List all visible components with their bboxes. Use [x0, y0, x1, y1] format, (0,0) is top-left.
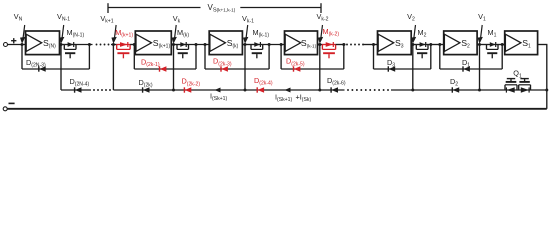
arrow and label V_k [175, 25, 177, 39]
vertical V_2 to row2 [412, 46, 414, 91]
node before S3 [372, 43, 375, 46]
arrow and label V_k-2 [321, 25, 323, 39]
negative terminal [3, 107, 7, 111]
transistor M1 [487, 44, 499, 46]
bracket V_S(k+1:k-1) [108, 7, 201, 9]
vertical V_1 to row2 [479, 46, 481, 91]
vertical V_k-1 to row2 [244, 46, 246, 91]
wire M2 to S2 [428, 44, 444, 46]
diode D(2N-3) [38, 66, 40, 71]
vertical V_k+1 to row2 [112, 46, 114, 91]
diode D(2k-5) red [293, 66, 295, 71]
node V_2 [411, 43, 414, 46]
diode D(2k) [142, 87, 144, 92]
row2 main segment [113, 89, 344, 91]
driver box S(k-1) [285, 31, 318, 55]
node before S(k) [204, 43, 207, 46]
positive input terminal [4, 43, 8, 47]
wire continuation dots 2 [346, 44, 348, 46]
arrow and label V_N [23, 25, 25, 39]
wire S1 to right rail [538, 44, 548, 46]
transistor M(N-1) [64, 44, 76, 46]
node before S(k+1) [133, 43, 136, 46]
driver box S3 [378, 31, 412, 55]
wire + terminal to S(N) [8, 44, 26, 46]
transistor M(k-2) red [322, 44, 335, 46]
node after M(k-1) [268, 43, 271, 46]
wire M(k-2) to node [336, 44, 346, 46]
wire continuation dots [96, 44, 98, 46]
node after M(k) [195, 43, 198, 46]
wire M(N-1) to node [76, 44, 93, 46]
node V_k-1 [244, 43, 247, 46]
wire S2 to M1 [477, 44, 486, 46]
arrow and label V_k+1 [114, 25, 116, 39]
transistor M2 [416, 44, 428, 46]
node after M2 [429, 43, 432, 46]
node V_k+1 [112, 43, 115, 46]
node after M(k-2) [342, 43, 345, 46]
arrow and label V_k-1 [246, 25, 248, 39]
driver box S(k+1) [135, 31, 171, 55]
wire into S3 [363, 44, 378, 46]
wire into M(k+1) [111, 44, 117, 46]
node V_1 [478, 43, 481, 46]
diode D(2k-1) red [159, 66, 161, 71]
row1 segment stage k [204, 46, 206, 70]
current arrow I(Sk+1) [215, 88, 221, 93]
wire S(k) to M(k-1) [242, 44, 251, 46]
driver box S(N) [26, 31, 60, 55]
diode D2 [451, 87, 453, 92]
node V_N-1 [60, 43, 63, 46]
wire S(N) to M(N-1) [60, 44, 65, 46]
switch Q1 left mosfet [504, 85, 506, 90]
node before S(k-1) [280, 43, 283, 46]
right rail down [546, 45, 548, 109]
row2 dots 1 [93, 89, 95, 91]
node V_k-2 [318, 43, 321, 46]
bottom rail [7, 108, 547, 110]
row1 segment stage 3 [373, 46, 375, 70]
wire M1 to S1 [498, 44, 505, 46]
row2 segment stage N [61, 89, 91, 91]
node before S2 [438, 43, 441, 46]
diode D(2N-4) [74, 87, 76, 92]
node V_k [172, 43, 175, 46]
driver box S(k) [209, 31, 242, 55]
wire S(k-1) to M(k-2) [318, 44, 323, 46]
driver box S2 [444, 31, 477, 55]
diode D3 [387, 66, 389, 71]
diode D(2k-2) red [183, 87, 185, 92]
row1 segment stage k+1 [133, 46, 135, 70]
row2 dots 2 [347, 89, 349, 91]
wire M(k+1) to S(k+1) [130, 44, 135, 46]
driver box S1 [505, 31, 538, 55]
node V_N [21, 43, 24, 46]
diode D(2k-3) red [220, 66, 222, 71]
row1 segment stage N [21, 46, 23, 70]
diode D1 [462, 66, 464, 71]
switch Q1 right mosfet [518, 85, 520, 90]
transistor M(k-1) [251, 44, 263, 46]
node after M1 [501, 43, 504, 46]
transistor M(k) [177, 44, 189, 46]
diode D(2k-4) red [256, 87, 258, 92]
row1 segment stage 2 [439, 46, 441, 70]
node after M(N-1) [88, 43, 91, 46]
row1 segment stage k-1 [280, 46, 282, 70]
arrow and label V_N-1 [62, 25, 64, 39]
row2 right segment [391, 89, 547, 91]
transistor M(k+1) red [117, 44, 130, 46]
wire M(k) to S(k) [189, 44, 210, 46]
current arrow I(Sk+1)+I(Sk) [285, 88, 291, 93]
arrow and label V_1 [481, 25, 483, 39]
vertical V_N-1 to row2 [60, 46, 62, 91]
wire M(k-1) to S(k-1) [263, 44, 285, 46]
vertical V_k-2 to row2 [319, 46, 321, 91]
row2 end node [545, 89, 548, 92]
wire S3 to M2 [411, 44, 416, 46]
wire S(k+1) to M(k) [171, 44, 177, 46]
diode D(2k-6) [330, 87, 332, 92]
arrow and label V_2 [414, 25, 416, 39]
vertical V_k to row2 [173, 46, 175, 91]
